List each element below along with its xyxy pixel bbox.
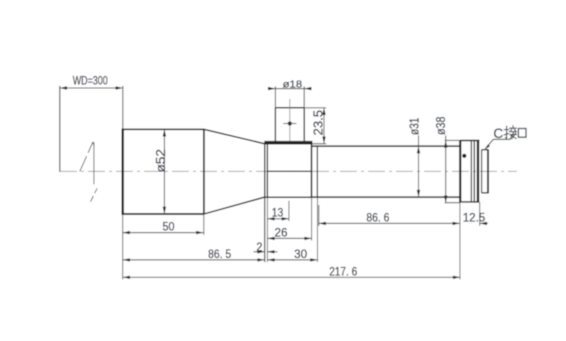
- 86.6 dimension: [319, 222, 460, 224]
- front face: [121, 129, 123, 215]
- phi38 dimension: [445, 136, 460, 203]
- 86.5 dimension: [123, 259, 265, 261]
- mounting plate bar on top of mid block: [264, 141, 312, 145]
- svg-text:ø31: ø31: [408, 118, 422, 136]
- 23.5 dimension: [305, 108, 326, 144]
- object plane line: [59, 86, 61, 172]
- phi52 dimension: [163, 129, 165, 214]
- ring grooves: [470, 141, 472, 202]
- svg-text:12.5: 12.5: [463, 212, 486, 225]
- rear edge of front section: [203, 129, 205, 214]
- bottom edge: [122, 213, 205, 215]
- set screw dot: [462, 154, 466, 158]
- top edge: [122, 128, 205, 130]
- svg-text:23.5: 23.5: [312, 110, 326, 136]
- C-mount label: glyph kou: [518, 129, 526, 138]
- 217.6 dimension: [123, 276, 460, 278]
- svg-text:30: 30: [294, 248, 307, 261]
- break zigzag vertical: [93, 142, 95, 184]
- svg-text:50: 50: [163, 221, 175, 234]
- svg-text:WD=300: WD=300: [73, 75, 108, 88]
- 30 dimension: [267, 259, 317, 261]
- cone taper top: [204, 129, 265, 144]
- svg-text:86. 6: 86. 6: [366, 211, 389, 224]
- svg-text:C: C: [493, 126, 503, 141]
- column centerline: [289, 99, 291, 141]
- svg-text:217. 6: 217. 6: [329, 265, 357, 278]
- extension lines below: [123, 197, 480, 279]
- phi38 clamp ring: [460, 140, 479, 202]
- svg-text:ø18: ø18: [283, 79, 303, 91]
- vertical illumination column (phi18): [275, 108, 304, 141]
- 13 dimension: [267, 218, 289, 220]
- column center dot: [288, 121, 292, 125]
- 12.5 dimension: [480, 222, 488, 224]
- break zigzag lower diagonal: [91, 196, 94, 202]
- svg-text:26: 26: [275, 226, 288, 239]
- extension line at flange lip: [264, 197, 266, 262]
- C-mount thread stub: [482, 149, 488, 193]
- svg-text:2: 2: [256, 241, 262, 254]
- WD=300 dimension: [60, 86, 123, 129]
- phi18 dimension: [268, 86, 312, 107]
- main barrel (phi31): [312, 146, 460, 197]
- 2 dimension: [254, 251, 278, 253]
- break zigzag upper diagonal: [80, 142, 97, 202]
- C-mount leader line: [485, 139, 510, 149]
- cone taper bottom: [204, 197, 265, 214]
- center cross line: [283, 123, 296, 125]
- C-mount label: glyph jie: [504, 126, 517, 139]
- 50 dimension: [123, 232, 204, 234]
- mid block (front group housing): [265, 144, 312, 198]
- svg-text:13: 13: [272, 206, 284, 219]
- svg-text:86. 5: 86. 5: [208, 248, 231, 261]
- phi31 dimension: [418, 136, 420, 198]
- optical axis centerline: [60, 170, 517, 172]
- 26 dimension: [267, 237, 311, 239]
- block mid line: [267, 170, 311, 172]
- lens front housing (phi52 section): [122, 129, 265, 215]
- svg-text:ø52: ø52: [153, 149, 168, 173]
- svg-text:ø38: ø38: [434, 117, 448, 136]
